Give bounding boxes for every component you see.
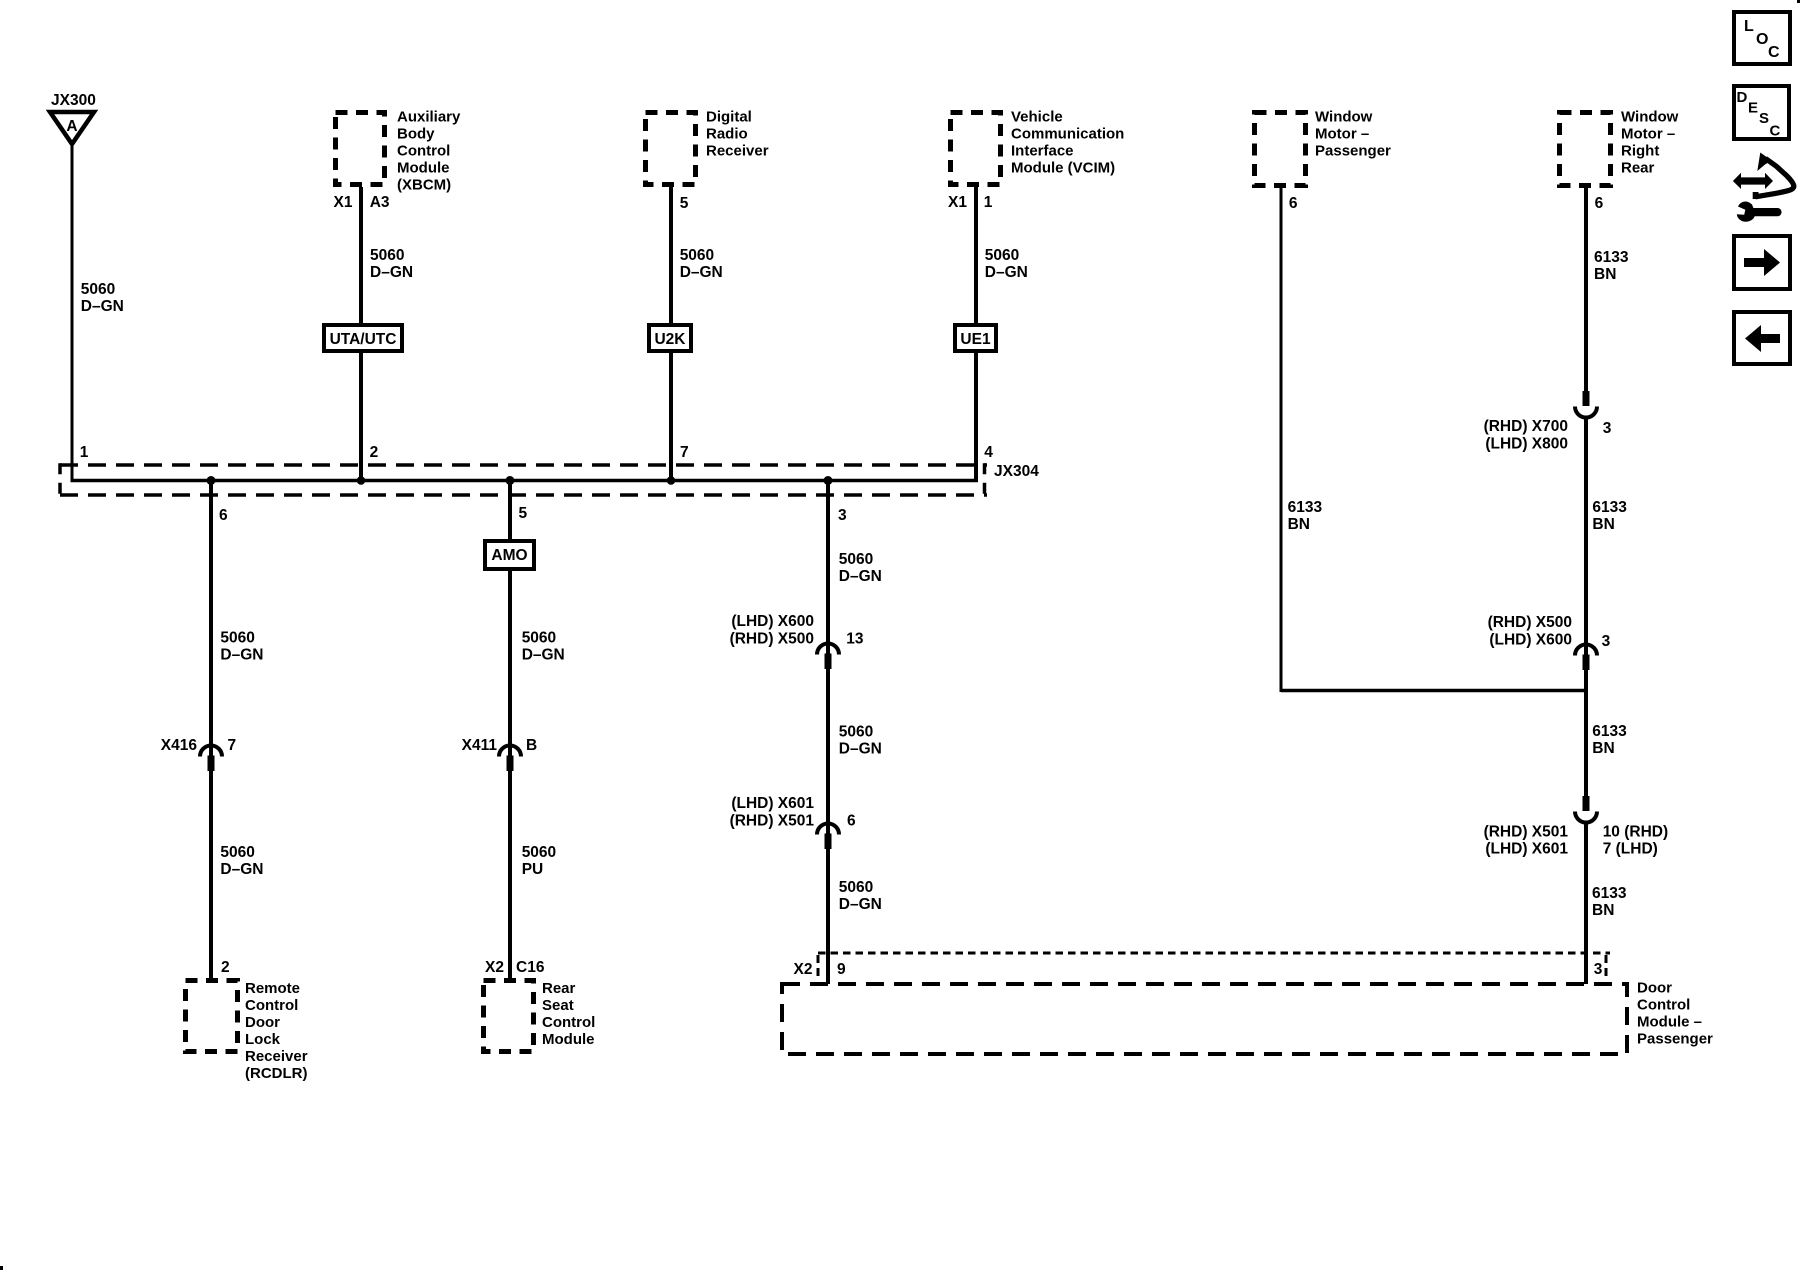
junction dot JX304 pin 2 (357, 476, 366, 485)
svg-text:3: 3 (1603, 420, 1612, 437)
svg-text:Rear: Rear (1621, 160, 1655, 177)
svg-text:(RCDLR): (RCDLR) (245, 1065, 307, 1082)
svg-text:D–GN: D–GN (220, 647, 263, 664)
nav icon LOC box (1734, 12, 1790, 64)
svg-text:X416: X416 (161, 737, 198, 754)
label (LHD) X601 (RHD) X501 (730, 795, 815, 830)
svg-text:D–GN: D–GN (839, 896, 882, 913)
svg-text:6133: 6133 (1592, 885, 1627, 902)
svg-text:(LHD) X601: (LHD) X601 (731, 795, 814, 812)
module Digital Radio Receiver (646, 109, 769, 185)
svg-text:U2K: U2K (654, 331, 686, 348)
wire Digital Radio Receiver pin 5 to U2K (669, 187, 673, 325)
label 5060 D-GN (segment 2) (839, 724, 882, 758)
wire XBCM X1-A3 to UTA/UTC (359, 187, 363, 325)
svg-text:6: 6 (1289, 195, 1298, 212)
junction dot JX304 pin 3 (824, 476, 833, 485)
wire 6133 BN from Window Motor Passenger (1280, 188, 1283, 692)
svg-text:7 (LHD): 7 (LHD) (1603, 841, 1658, 858)
svg-text:(RHD) X500: (RHD) X500 (730, 631, 814, 648)
svg-text:5: 5 (680, 195, 689, 212)
svg-text:Motor –: Motor – (1315, 126, 1369, 143)
svg-text:6133: 6133 (1592, 499, 1627, 516)
svg-text:Interface: Interface (1011, 143, 1074, 160)
nav icon DESC box (1734, 86, 1789, 140)
wire JX304 pin 3 to Door Control Module pin 9 (826, 481, 830, 985)
svg-text:(RHD) X501: (RHD) X501 (1484, 824, 1569, 841)
svg-text:B: B (526, 737, 537, 754)
svg-text:5060: 5060 (220, 630, 254, 647)
svg-text:Communication: Communication (1011, 126, 1124, 143)
connector label X1 A3 (XBCM) (334, 194, 390, 211)
svg-text:(RHD) X500: (RHD) X500 (1488, 614, 1572, 631)
inline option box AMO (485, 541, 534, 569)
label 5060 D-GN (below AMO) (522, 630, 565, 664)
page corner mark bottom-left (0, 1266, 3, 1270)
svg-text:(XBCM): (XBCM) (397, 177, 451, 194)
svg-text:O: O (1756, 31, 1768, 48)
label (RHD) X500 (LHD) X600 (1488, 614, 1572, 649)
svg-text:2: 2 (370, 444, 379, 461)
inline option box UTA/UTC (324, 325, 402, 351)
svg-text:(LHD) X800: (LHD) X800 (1485, 436, 1568, 453)
svg-text:6: 6 (847, 813, 856, 830)
svg-text:D–GN: D–GN (839, 568, 882, 585)
module XBCM (Auxiliary Body Control Module) (336, 109, 462, 194)
connector label X2 C16 (Rear Seat Control Module) (485, 959, 545, 976)
svg-text:Right: Right (1621, 143, 1659, 160)
svg-text:7: 7 (228, 737, 237, 754)
module RCDLR (Remote Control Door Lock Receiver) (186, 980, 308, 1082)
inline connector (RHD) X700 / (LHD) X800 pin 3 (1575, 391, 1597, 418)
wire U2K to JX304 pin 7 (669, 351, 673, 481)
svg-text:6133: 6133 (1592, 723, 1627, 740)
inline option box UE1 (955, 325, 996, 351)
svg-text:BN: BN (1592, 902, 1614, 919)
inline option box U2K (649, 325, 691, 351)
svg-text:Door: Door (245, 1014, 280, 1031)
label 5060 D-GN (VCIM wire) (985, 247, 1028, 281)
nav icon arrow-right box (1734, 236, 1790, 289)
junction dot JX304 pin 5 (506, 476, 515, 485)
svg-text:5060: 5060 (370, 247, 404, 264)
svg-text:5060: 5060 (985, 247, 1019, 264)
svg-text:BN: BN (1592, 516, 1614, 533)
svg-text:Module: Module (542, 1031, 595, 1048)
svg-text:Auxiliary: Auxiliary (397, 109, 461, 126)
svg-text:Module (VCIM): Module (VCIM) (1011, 160, 1115, 177)
svg-text:BN: BN (1594, 266, 1616, 283)
wire UE1 to JX304 pin 4 (974, 351, 978, 481)
svg-text:D–GN: D–GN (220, 861, 263, 878)
svg-text:AMO: AMO (491, 547, 527, 564)
svg-text:Seat: Seat (542, 997, 574, 1014)
wire AMO to Rear Seat Control Module (508, 569, 512, 978)
svg-text:D–GN: D–GN (522, 647, 565, 664)
svg-text:3: 3 (1602, 633, 1611, 650)
svg-text:Vehicle: Vehicle (1011, 109, 1063, 126)
svg-text:Receiver: Receiver (706, 143, 769, 160)
svg-text:D–GN: D–GN (985, 264, 1028, 281)
svg-text:(LHD) X600: (LHD) X600 (731, 613, 814, 630)
svg-text:D–GN: D–GN (370, 264, 413, 281)
svg-text:Control: Control (245, 997, 298, 1014)
svg-text:1: 1 (984, 194, 993, 211)
svg-text:C: C (1770, 123, 1781, 140)
module Window Motor - Right Rear (1560, 109, 1679, 186)
connector label X1 1 (VCIM) (948, 194, 993, 211)
svg-text:Control: Control (1637, 997, 1690, 1014)
connector tick left (X2) (817, 955, 820, 981)
svg-text:Door: Door (1637, 980, 1672, 997)
inline connector (LHD) X601 / (RHD) X501 pin 6 (817, 824, 839, 849)
nav icon arrow-left box (1734, 312, 1790, 364)
svg-text:Window: Window (1621, 109, 1679, 126)
svg-text:5060: 5060 (680, 247, 714, 264)
svg-text:JX304: JX304 (994, 463, 1039, 480)
svg-text:(LHD) X600: (LHD) X600 (1489, 632, 1572, 649)
module Door Control Module - Passenger dashed box (782, 980, 1713, 1055)
svg-text:Rear: Rear (542, 980, 576, 997)
label 6133 BN (bottom right) (1592, 885, 1627, 919)
svg-text:X1: X1 (334, 194, 353, 211)
svg-text:5060: 5060 (81, 281, 115, 298)
svg-text:Control: Control (542, 1014, 595, 1031)
inline connector (RHD) X500 / (LHD) X600 pin 3 (1575, 645, 1597, 671)
page corner mark top-right (1797, 0, 1800, 3)
svg-text:D–GN: D–GN (81, 298, 124, 315)
wire 6133 BN upper segment (right rear motor) (1584, 188, 1588, 391)
label (LHD) X600 (RHD) X500 (730, 613, 814, 648)
svg-text:PU: PU (522, 861, 544, 878)
svg-text:Passenger: Passenger (1315, 143, 1391, 160)
svg-text:Digital: Digital (706, 109, 752, 126)
inline connector X411 pin B (499, 746, 521, 772)
label 5060 D-GN (JX300 wire) (81, 281, 124, 315)
svg-text:5060: 5060 (522, 844, 556, 861)
svg-text:1: 1 (80, 444, 89, 461)
wire 6133 BN middle segment (1584, 417, 1588, 656)
svg-text:Receiver: Receiver (245, 1048, 308, 1065)
wire JX304 pin 5 to AMO (508, 481, 512, 542)
svg-text:13: 13 (846, 631, 864, 648)
svg-text:D: D (1737, 89, 1748, 106)
svg-text:E: E (1748, 100, 1758, 117)
svg-text:X1: X1 (948, 194, 967, 211)
svg-text:6: 6 (1595, 195, 1604, 212)
svg-text:7: 7 (680, 444, 689, 461)
svg-text:Lock: Lock (245, 1031, 281, 1048)
svg-text:C16: C16 (516, 959, 545, 976)
svg-text:Passenger: Passenger (1637, 1031, 1713, 1048)
svg-text:6133: 6133 (1288, 499, 1323, 516)
svg-text:2: 2 (221, 959, 230, 976)
svg-text:3: 3 (1594, 961, 1603, 978)
nav icon service-info (arrows and wrench) (1733, 153, 1794, 222)
svg-text:Module: Module (397, 160, 450, 177)
svg-text:Control: Control (397, 143, 450, 160)
junction dot JX304 pin 6 (207, 476, 216, 485)
label 6133 BN (passenger wire) (1288, 499, 1323, 533)
wire JX304 pin 6 to RCDLR pin 2 (209, 481, 213, 979)
module VCIM (Vehicle Communication Interface Module) (951, 109, 1125, 185)
svg-text:JX300: JX300 (51, 92, 96, 109)
svg-text:Window: Window (1315, 109, 1373, 126)
svg-text:3: 3 (838, 507, 847, 524)
junction dot JX304 pin 7 (667, 476, 676, 485)
svg-text:5060: 5060 (839, 551, 873, 568)
svg-text:D–GN: D–GN (839, 741, 882, 758)
label 5060 D-GN (upper segment) (220, 630, 263, 664)
svg-text:Motor –: Motor – (1621, 126, 1675, 143)
svg-text:A: A (66, 118, 77, 135)
svg-text:S: S (1759, 110, 1769, 127)
svg-text:(LHD) X601: (LHD) X601 (1485, 841, 1568, 858)
wire UTA/UTC to JX304 pin 2 (359, 351, 363, 481)
svg-text:Remote: Remote (245, 980, 300, 997)
label 5060 D-GN (segment 1) (839, 551, 882, 585)
connector tick right (1605, 955, 1608, 981)
svg-text:UE1: UE1 (960, 331, 991, 348)
svg-text:6: 6 (219, 507, 228, 524)
inline connector (LHD) X600 / (RHD) X500 pin 13 (817, 644, 839, 670)
inline connector (RHD) X501 / (LHD) X601 pin 10/7 (1575, 796, 1597, 823)
label 6133 BN (mid right) (1592, 499, 1627, 533)
svg-text:C: C (1768, 44, 1780, 61)
svg-text:10 (RHD): 10 (RHD) (1603, 824, 1668, 841)
label 5060 PU (522, 844, 556, 878)
label (RHD) X501 (LHD) X601 (1484, 824, 1569, 858)
svg-text:BN: BN (1288, 516, 1310, 533)
module Window Motor - Passenger (1255, 109, 1392, 186)
label 5060 D-GN (radio wire) (680, 247, 723, 281)
svg-text:D–GN: D–GN (680, 264, 723, 281)
svg-text:Module –: Module – (1637, 1014, 1702, 1031)
svg-text:L: L (1744, 18, 1754, 35)
svg-text:UTA/UTC: UTA/UTC (330, 331, 397, 348)
svg-text:5: 5 (519, 505, 528, 522)
wire 6133 BN lower segment to Door Control Module pin 3 (1584, 822, 1588, 984)
svg-text:X411: X411 (462, 737, 498, 754)
svg-text:X2: X2 (485, 959, 504, 976)
wire 5060 D-GN from JX300 to JX304 pin 1 (71, 146, 74, 481)
inline connector X416 pin 7 (200, 746, 222, 772)
wire VCIM X1-1 to UE1 (974, 187, 978, 325)
svg-text:6133: 6133 (1594, 249, 1629, 266)
svg-text:(RHD) X501: (RHD) X501 (730, 813, 815, 830)
svg-text:A3: A3 (370, 194, 390, 211)
label 6133 BN (upper right) (1594, 249, 1629, 283)
svg-text:Radio: Radio (706, 126, 748, 143)
splice JX300 (antenna triangle) (50, 92, 96, 144)
svg-text:5060: 5060 (522, 630, 556, 647)
svg-text:(RHD) X700: (RHD) X700 (1484, 418, 1568, 435)
label 6133 BN (below junction) (1592, 723, 1627, 757)
svg-text:Body: Body (397, 126, 435, 143)
wire 6133 BN from X500/X600 junction to X501/X601 (1584, 656, 1588, 797)
bus wire inside JX304 (71, 479, 979, 483)
svg-text:X2: X2 (794, 961, 813, 978)
svg-text:5060: 5060 (839, 879, 873, 896)
label 5060 D-GN (XBCM wire) (370, 247, 413, 281)
svg-text:9: 9 (837, 961, 846, 978)
splice pack JX304 dashed box (60, 463, 987, 497)
internal connector rail X2 (fine dotted) (818, 952, 1610, 955)
svg-text:5060: 5060 (220, 844, 254, 861)
svg-text:5060: 5060 (839, 724, 873, 741)
module Rear Seat Control Module (484, 980, 596, 1052)
pin label 10 (RHD) 7 (LHD) (1603, 824, 1668, 858)
svg-text:BN: BN (1592, 740, 1614, 757)
label 5060 D-GN (segment 3) (839, 879, 882, 913)
label (RHD) X700 (LHD) X800 (1484, 418, 1568, 453)
label 5060 D-GN (lower segment) (220, 844, 263, 878)
svg-text:4: 4 (984, 444, 993, 461)
